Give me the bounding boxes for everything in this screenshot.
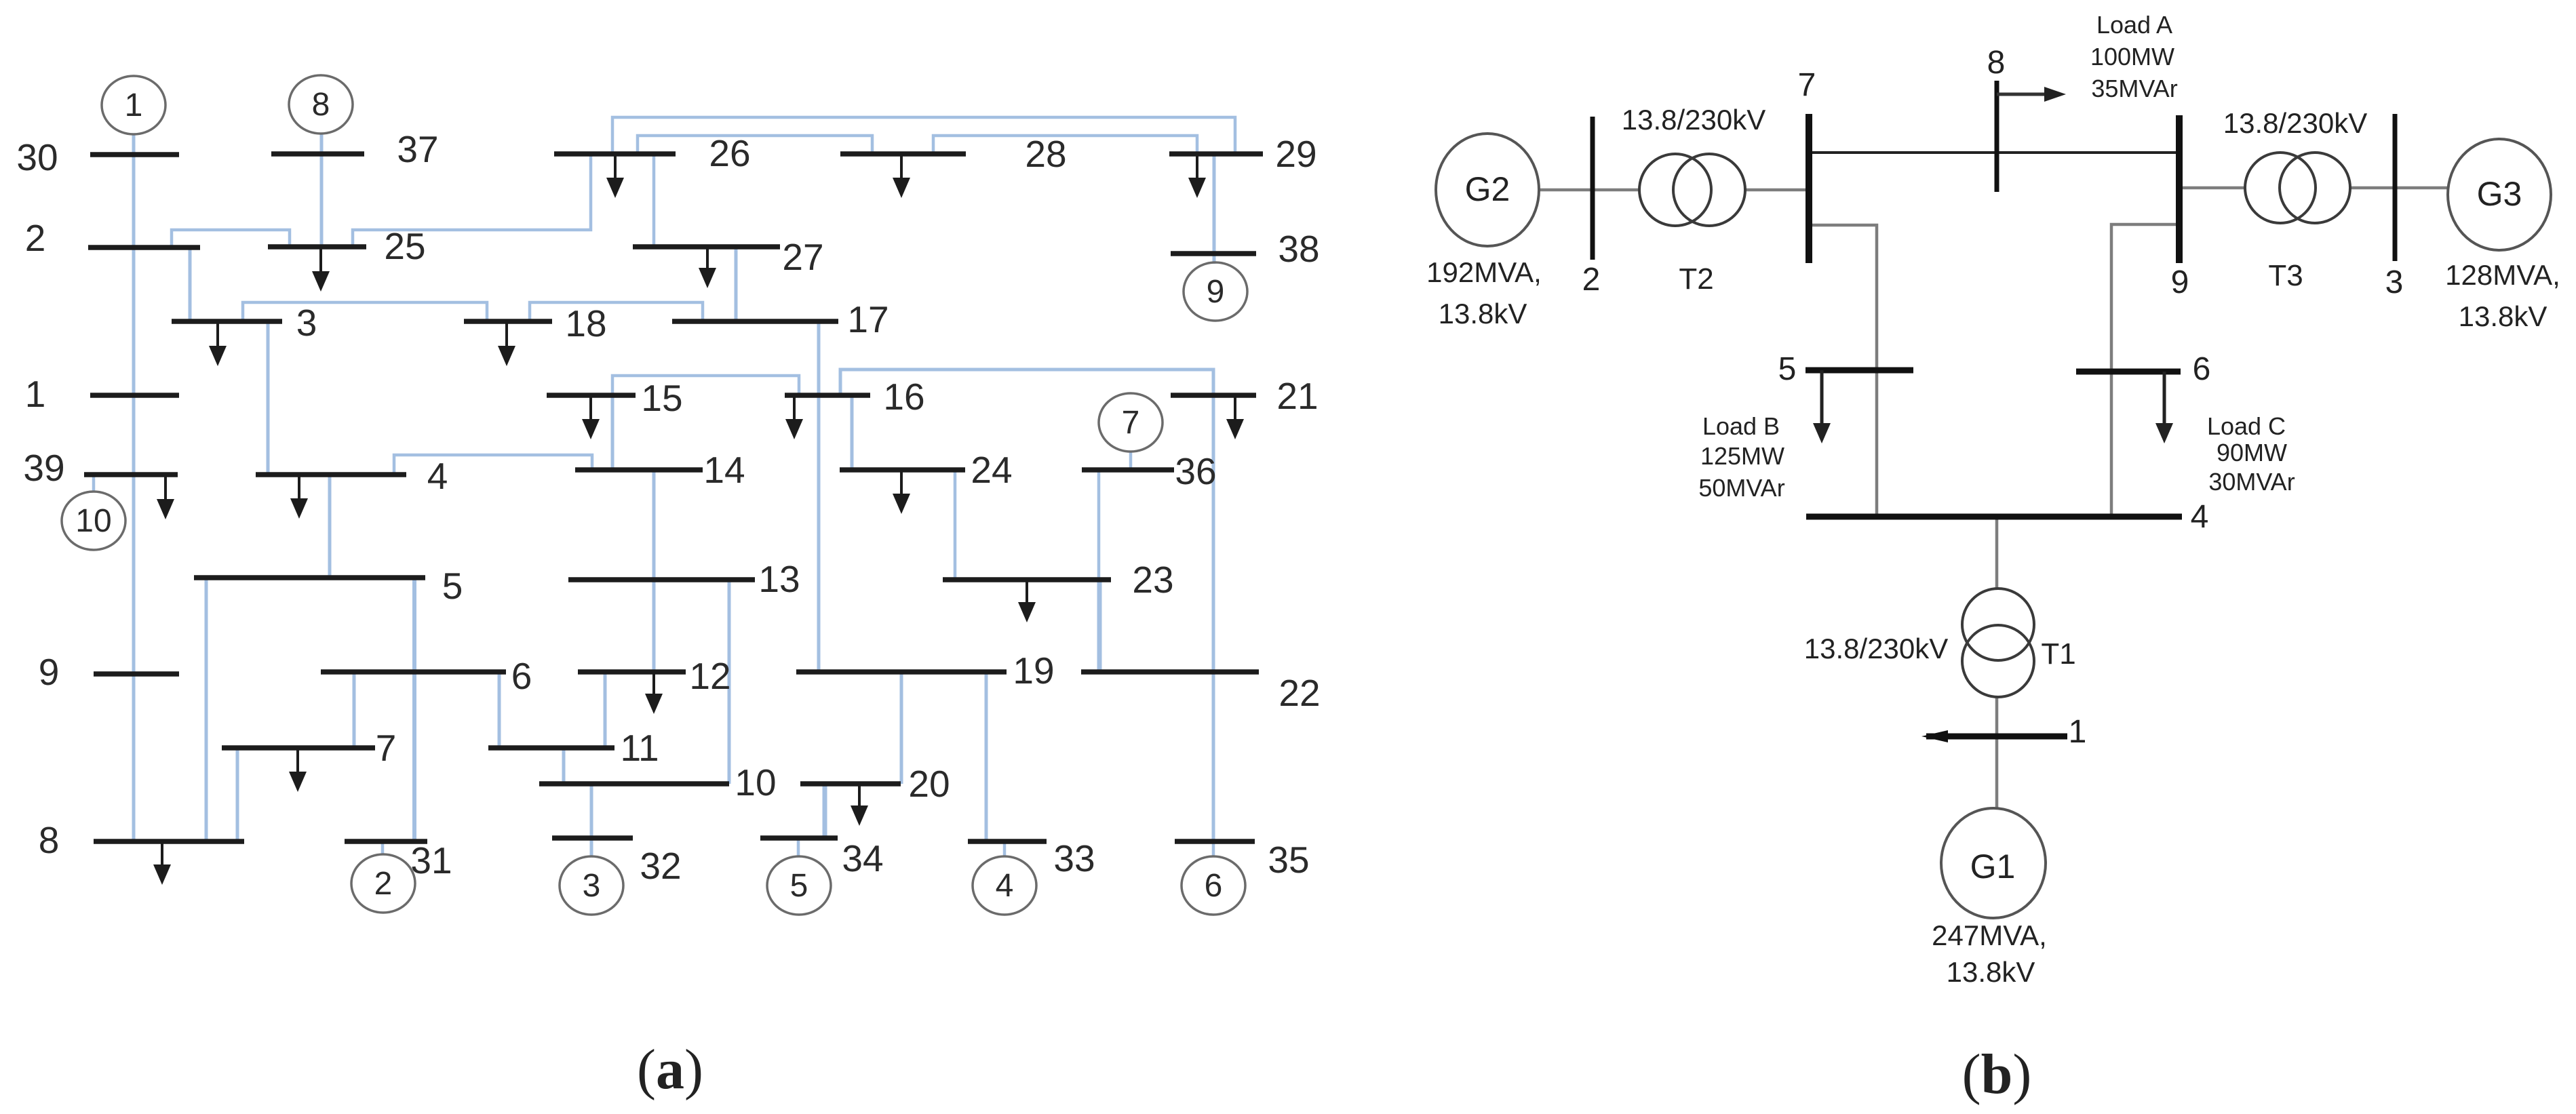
svg-text:90MW: 90MW: [2217, 439, 2287, 466]
svg-text:128MVA,: 128MVA,: [2445, 259, 2560, 291]
svg-text:33: 33: [1053, 837, 1095, 879]
svg-text:T3: T3: [2268, 259, 2303, 292]
svg-text:7: 7: [1122, 405, 1140, 441]
svg-text:5: 5: [1778, 351, 1797, 387]
svg-text:17: 17: [847, 298, 889, 340]
svg-text:36: 36: [1175, 450, 1216, 492]
svg-text:9: 9: [1207, 274, 1225, 310]
svg-text:26: 26: [709, 132, 750, 174]
svg-text:1: 1: [25, 373, 46, 415]
svg-text:G1: G1: [1970, 848, 2016, 886]
svg-text:11: 11: [620, 727, 659, 769]
svg-text:T1: T1: [2041, 637, 2075, 671]
svg-text:13.8/230kV: 13.8/230kV: [1804, 633, 1949, 664]
svg-text:39: 39: [23, 447, 64, 489]
svg-text:35: 35: [1268, 839, 1309, 881]
svg-text:5: 5: [790, 868, 808, 904]
svg-text:29: 29: [1275, 133, 1316, 175]
svg-text:24: 24: [971, 449, 1012, 491]
svg-text:7: 7: [1798, 67, 1816, 103]
svg-text:7: 7: [376, 727, 397, 769]
svg-text:247MVA,: 247MVA,: [1932, 919, 2047, 951]
svg-text:20: 20: [908, 763, 950, 805]
svg-text:3: 3: [296, 302, 317, 344]
svg-text:(b): (b): [1962, 1043, 2032, 1106]
svg-text:37: 37: [397, 128, 438, 170]
svg-text:13.8kV: 13.8kV: [2459, 300, 2548, 332]
svg-text:125MW: 125MW: [1700, 442, 1784, 470]
svg-text:192MVA,: 192MVA,: [1426, 256, 1542, 288]
svg-text:6: 6: [511, 655, 532, 697]
svg-text:13.8/230kV: 13.8/230kV: [1622, 104, 1766, 136]
svg-text:1: 1: [125, 87, 143, 123]
svg-text:8: 8: [1987, 45, 2006, 81]
svg-text:19: 19: [1013, 650, 1054, 692]
svg-text:Load A: Load A: [2096, 11, 2172, 39]
svg-text:2: 2: [374, 866, 393, 902]
svg-text:Load B: Load B: [1702, 412, 1780, 440]
svg-text:12: 12: [689, 655, 730, 697]
svg-text:15: 15: [641, 377, 682, 419]
svg-text:13.8kV: 13.8kV: [1439, 298, 1527, 330]
svg-text:9: 9: [39, 651, 60, 693]
svg-text:9: 9: [2171, 264, 2189, 300]
svg-text:32: 32: [640, 845, 681, 887]
svg-text:30MVAr: 30MVAr: [2208, 468, 2295, 496]
svg-text:28: 28: [1025, 133, 1066, 175]
svg-text:14: 14: [703, 449, 745, 491]
svg-text:25: 25: [384, 225, 425, 267]
svg-text:35MVAr: 35MVAr: [2091, 75, 2177, 102]
svg-text:6: 6: [2193, 351, 2211, 387]
svg-text:16: 16: [883, 376, 924, 418]
svg-text:1: 1: [2069, 714, 2087, 750]
svg-text:3: 3: [583, 868, 601, 904]
svg-text:30: 30: [16, 136, 58, 178]
svg-text:6: 6: [1205, 868, 1223, 904]
svg-text:5: 5: [442, 565, 463, 607]
svg-text:(a): (a): [637, 1038, 703, 1101]
svg-text:3: 3: [2385, 264, 2404, 300]
svg-text:13.8kV: 13.8kV: [1947, 956, 2035, 988]
svg-text:4: 4: [996, 868, 1014, 904]
svg-text:50MVAr: 50MVAr: [1698, 474, 1784, 502]
svg-text:10: 10: [75, 503, 111, 539]
svg-text:13: 13: [758, 558, 800, 600]
svg-text:2: 2: [25, 217, 46, 259]
svg-text:23: 23: [1132, 559, 1173, 601]
svg-text:4: 4: [427, 455, 448, 497]
svg-text:G2: G2: [1465, 170, 1510, 208]
svg-text:8: 8: [312, 87, 330, 123]
svg-text:T2: T2: [1679, 262, 1713, 296]
svg-text:34: 34: [842, 837, 883, 879]
svg-text:27: 27: [782, 236, 823, 278]
svg-text:21: 21: [1276, 375, 1318, 417]
svg-text:31: 31: [410, 839, 452, 881]
svg-text:10: 10: [735, 761, 776, 803]
svg-text:18: 18: [565, 302, 606, 344]
svg-text:8: 8: [39, 819, 60, 861]
svg-text:4: 4: [2191, 499, 2209, 535]
svg-text:22: 22: [1279, 672, 1320, 714]
svg-text:100MW: 100MW: [2090, 43, 2174, 71]
svg-text:G3: G3: [2477, 175, 2522, 213]
svg-text:38: 38: [1278, 228, 1319, 270]
svg-text:2: 2: [1582, 262, 1601, 298]
svg-text:Load C: Load C: [2207, 412, 2286, 440]
svg-text:13.8/230kV: 13.8/230kV: [2223, 107, 2368, 139]
